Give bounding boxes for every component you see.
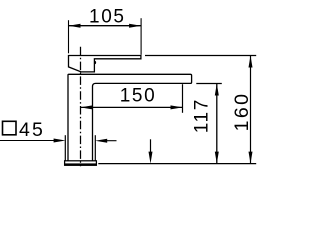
vertical center line (dash-dot) bbox=[80, 47, 82, 167]
base collar left edge bbox=[64, 135, 66, 161]
dimension 105: right arrowhead bbox=[129, 24, 141, 28]
dimension 160: bottom arrowhead bbox=[249, 152, 253, 164]
base plate bbox=[65, 161, 97, 165]
bottom mounting reference line bbox=[98, 163, 256, 165]
svg-text:105: 105 bbox=[89, 7, 126, 28]
dimension 117: dimension line bbox=[216, 84, 218, 164]
dimension 150: right extension line bbox=[182, 84, 184, 113]
dimension 150: dimension line bbox=[80, 106, 182, 108]
dimension 117: top extension line bbox=[196, 83, 222, 85]
flow direction arrow bbox=[150, 139, 152, 155]
45 leader left arrowhead bbox=[54, 139, 66, 143]
faucet body and spout outline bbox=[68, 74, 192, 160]
dimension 105: right extension line bbox=[140, 18, 142, 55]
svg-text:45: 45 bbox=[19, 119, 45, 141]
45 leader right arrowhead bbox=[95, 139, 107, 143]
faucet lever handle outline bbox=[69, 56, 141, 72]
base collar right edge bbox=[94, 135, 96, 161]
base plate bottom thick edge bbox=[64, 163, 97, 165]
dimension 150: right arrowhead bbox=[171, 105, 183, 109]
dimension 160: dimension line bbox=[250, 56, 252, 164]
45 leader line right bbox=[104, 140, 117, 142]
dimension 160: top arrowhead bbox=[249, 56, 253, 68]
square-section symbol bbox=[3, 121, 17, 135]
svg-text:160: 160 bbox=[231, 92, 253, 132]
45 leader line left bbox=[0, 140, 57, 142]
dimension 160: top extension line bbox=[145, 55, 256, 57]
svg-text:150: 150 bbox=[120, 85, 157, 106]
dimension 117: bottom arrowhead bbox=[215, 152, 219, 164]
dimension 117: top arrowhead bbox=[215, 84, 219, 96]
dimension 150: left arrowhead bbox=[80, 105, 92, 109]
handle pivot screw dot bbox=[94, 61, 96, 65]
svg-text:117: 117 bbox=[192, 98, 213, 133]
dimension 105: dimension line bbox=[69, 25, 142, 27]
dimension 105: left arrowhead bbox=[69, 24, 81, 28]
dimension 105: left extension line bbox=[68, 20, 70, 53]
